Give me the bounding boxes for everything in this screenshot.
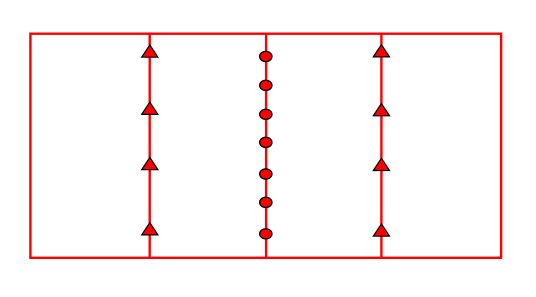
arrowhead B1 (right line, top) [373, 45, 389, 57]
dot D1 (middle line, top) [260, 51, 272, 61]
dot D2 [260, 80, 272, 90]
arrowhead B3 (right line) [373, 158, 389, 170]
wire middle vertical line [265, 34, 267, 258]
arrowhead A1 (left line, top) [142, 45, 158, 57]
dot D3 [260, 109, 272, 119]
arrowhead A2 (left line) [142, 102, 158, 114]
arrowhead A4 (left line, bottom) [142, 223, 158, 235]
arrowhead B2 (right line) [373, 104, 389, 116]
wire left vertical line [148, 34, 150, 258]
arrowhead A3 (left line) [142, 157, 158, 169]
boundary rectangle [30, 34, 501, 258]
wire right vertical line [380, 34, 382, 258]
dot D6 [260, 197, 272, 207]
arrowhead B4 (right line, bottom) [373, 224, 389, 236]
dot D4 [260, 137, 272, 147]
dot D5 [260, 169, 272, 179]
dot D7 (middle line, bottom) [260, 229, 272, 239]
